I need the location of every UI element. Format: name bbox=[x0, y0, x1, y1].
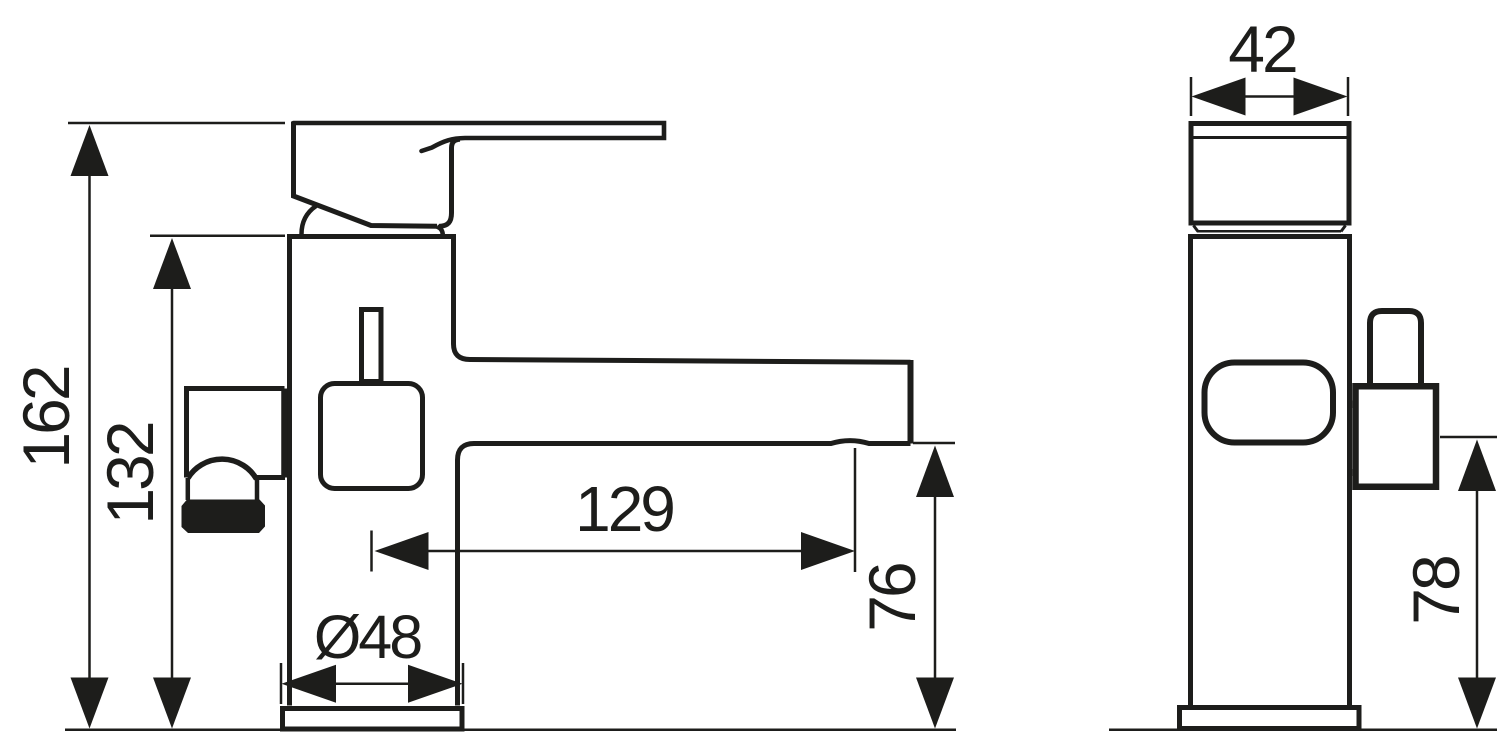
spout underside with break wave and body right edge bbox=[458, 441, 911, 706]
base plate right figure bbox=[1180, 708, 1360, 729]
cartridge tick right bbox=[437, 227, 443, 235]
dim 162 line bbox=[88, 170, 91, 683]
arrow 78 up bbox=[1458, 440, 1496, 492]
sprayer box front bbox=[1356, 386, 1437, 487]
arrow 76 up bbox=[916, 446, 954, 498]
body front view bbox=[1191, 237, 1350, 706]
dim 42 left tick bbox=[1190, 77, 1193, 116]
dim 162 extension line bbox=[68, 122, 285, 125]
svg-text:129: 129 bbox=[575, 473, 673, 545]
arrow 048 right bbox=[408, 665, 463, 703]
neck tick right bbox=[1341, 226, 1346, 232]
neck line bbox=[1197, 230, 1341, 233]
arrow 129 left bbox=[375, 532, 429, 570]
svg-text:76: 76 bbox=[855, 564, 929, 632]
svg-text:42: 42 bbox=[1228, 12, 1296, 86]
base plate left figure bbox=[283, 709, 463, 730]
arrow 048 left bbox=[282, 665, 337, 703]
dim048 right tick bbox=[462, 663, 465, 704]
arrow 129 right bbox=[801, 532, 855, 570]
arrow 78 down bbox=[1458, 678, 1496, 729]
svg-text:132: 132 bbox=[93, 423, 167, 524]
dim 132 extension line bbox=[150, 235, 285, 238]
handle back vertical bbox=[439, 139, 460, 226]
ground line left bbox=[65, 729, 956, 732]
faucet body (side view) bbox=[290, 237, 911, 706]
box tick top bbox=[1349, 401, 1353, 409]
rounded square boss bbox=[321, 384, 423, 489]
sprayer holder bottom segment bbox=[256, 475, 285, 480]
dim 76 line bbox=[934, 490, 937, 683]
arrow 42 right bbox=[1294, 78, 1348, 116]
dim 132 line bbox=[171, 283, 174, 683]
cartridge dome arc left bbox=[302, 206, 317, 234]
dim048 left tick bbox=[280, 663, 283, 704]
sprayer dome bbox=[188, 459, 257, 479]
dim 76 extension line bbox=[913, 442, 955, 445]
side sprayer holder rect bbox=[187, 389, 285, 478]
sprayer head (filled) bbox=[182, 500, 266, 534]
dim 129 right tick bbox=[854, 448, 857, 572]
handle body left edge and chin bbox=[294, 122, 438, 227]
box tick bottom bbox=[1349, 469, 1353, 476]
sprayer stem front bbox=[1370, 311, 1421, 386]
dim 129 line bbox=[426, 550, 804, 553]
neck tick left bbox=[1194, 226, 1199, 232]
arrow 132 up bbox=[153, 238, 191, 289]
dim 78 line bbox=[1476, 485, 1479, 683]
cap inner line bbox=[1191, 136, 1349, 139]
dim048 line bbox=[334, 683, 410, 686]
arrow 76 down bbox=[916, 678, 954, 729]
svg-text:162: 162 bbox=[9, 367, 83, 468]
ground line right bbox=[1109, 729, 1497, 732]
arrow 132 down bbox=[153, 678, 191, 729]
sprayer neck sides bbox=[186, 478, 191, 500]
svg-text:78: 78 bbox=[1399, 557, 1473, 625]
dim 129 left tick bbox=[370, 531, 373, 572]
cap bbox=[1191, 124, 1349, 224]
pill feature bbox=[1205, 363, 1334, 443]
arrow 162 up bbox=[71, 125, 109, 176]
sprayer right edge thick bbox=[281, 389, 288, 478]
dim 78 extension line bbox=[1440, 436, 1497, 439]
arrow 162 down bbox=[71, 678, 109, 729]
svg-text:Ø48: Ø48 bbox=[314, 603, 421, 671]
spout right edge bbox=[908, 360, 914, 444]
arrow 42 left bbox=[1192, 78, 1246, 116]
faucet handle lever (side view) bbox=[294, 123, 665, 151]
dim 42 line bbox=[1243, 95, 1296, 98]
lift stem bbox=[362, 310, 382, 382]
dim 42 right tick bbox=[1347, 77, 1350, 116]
